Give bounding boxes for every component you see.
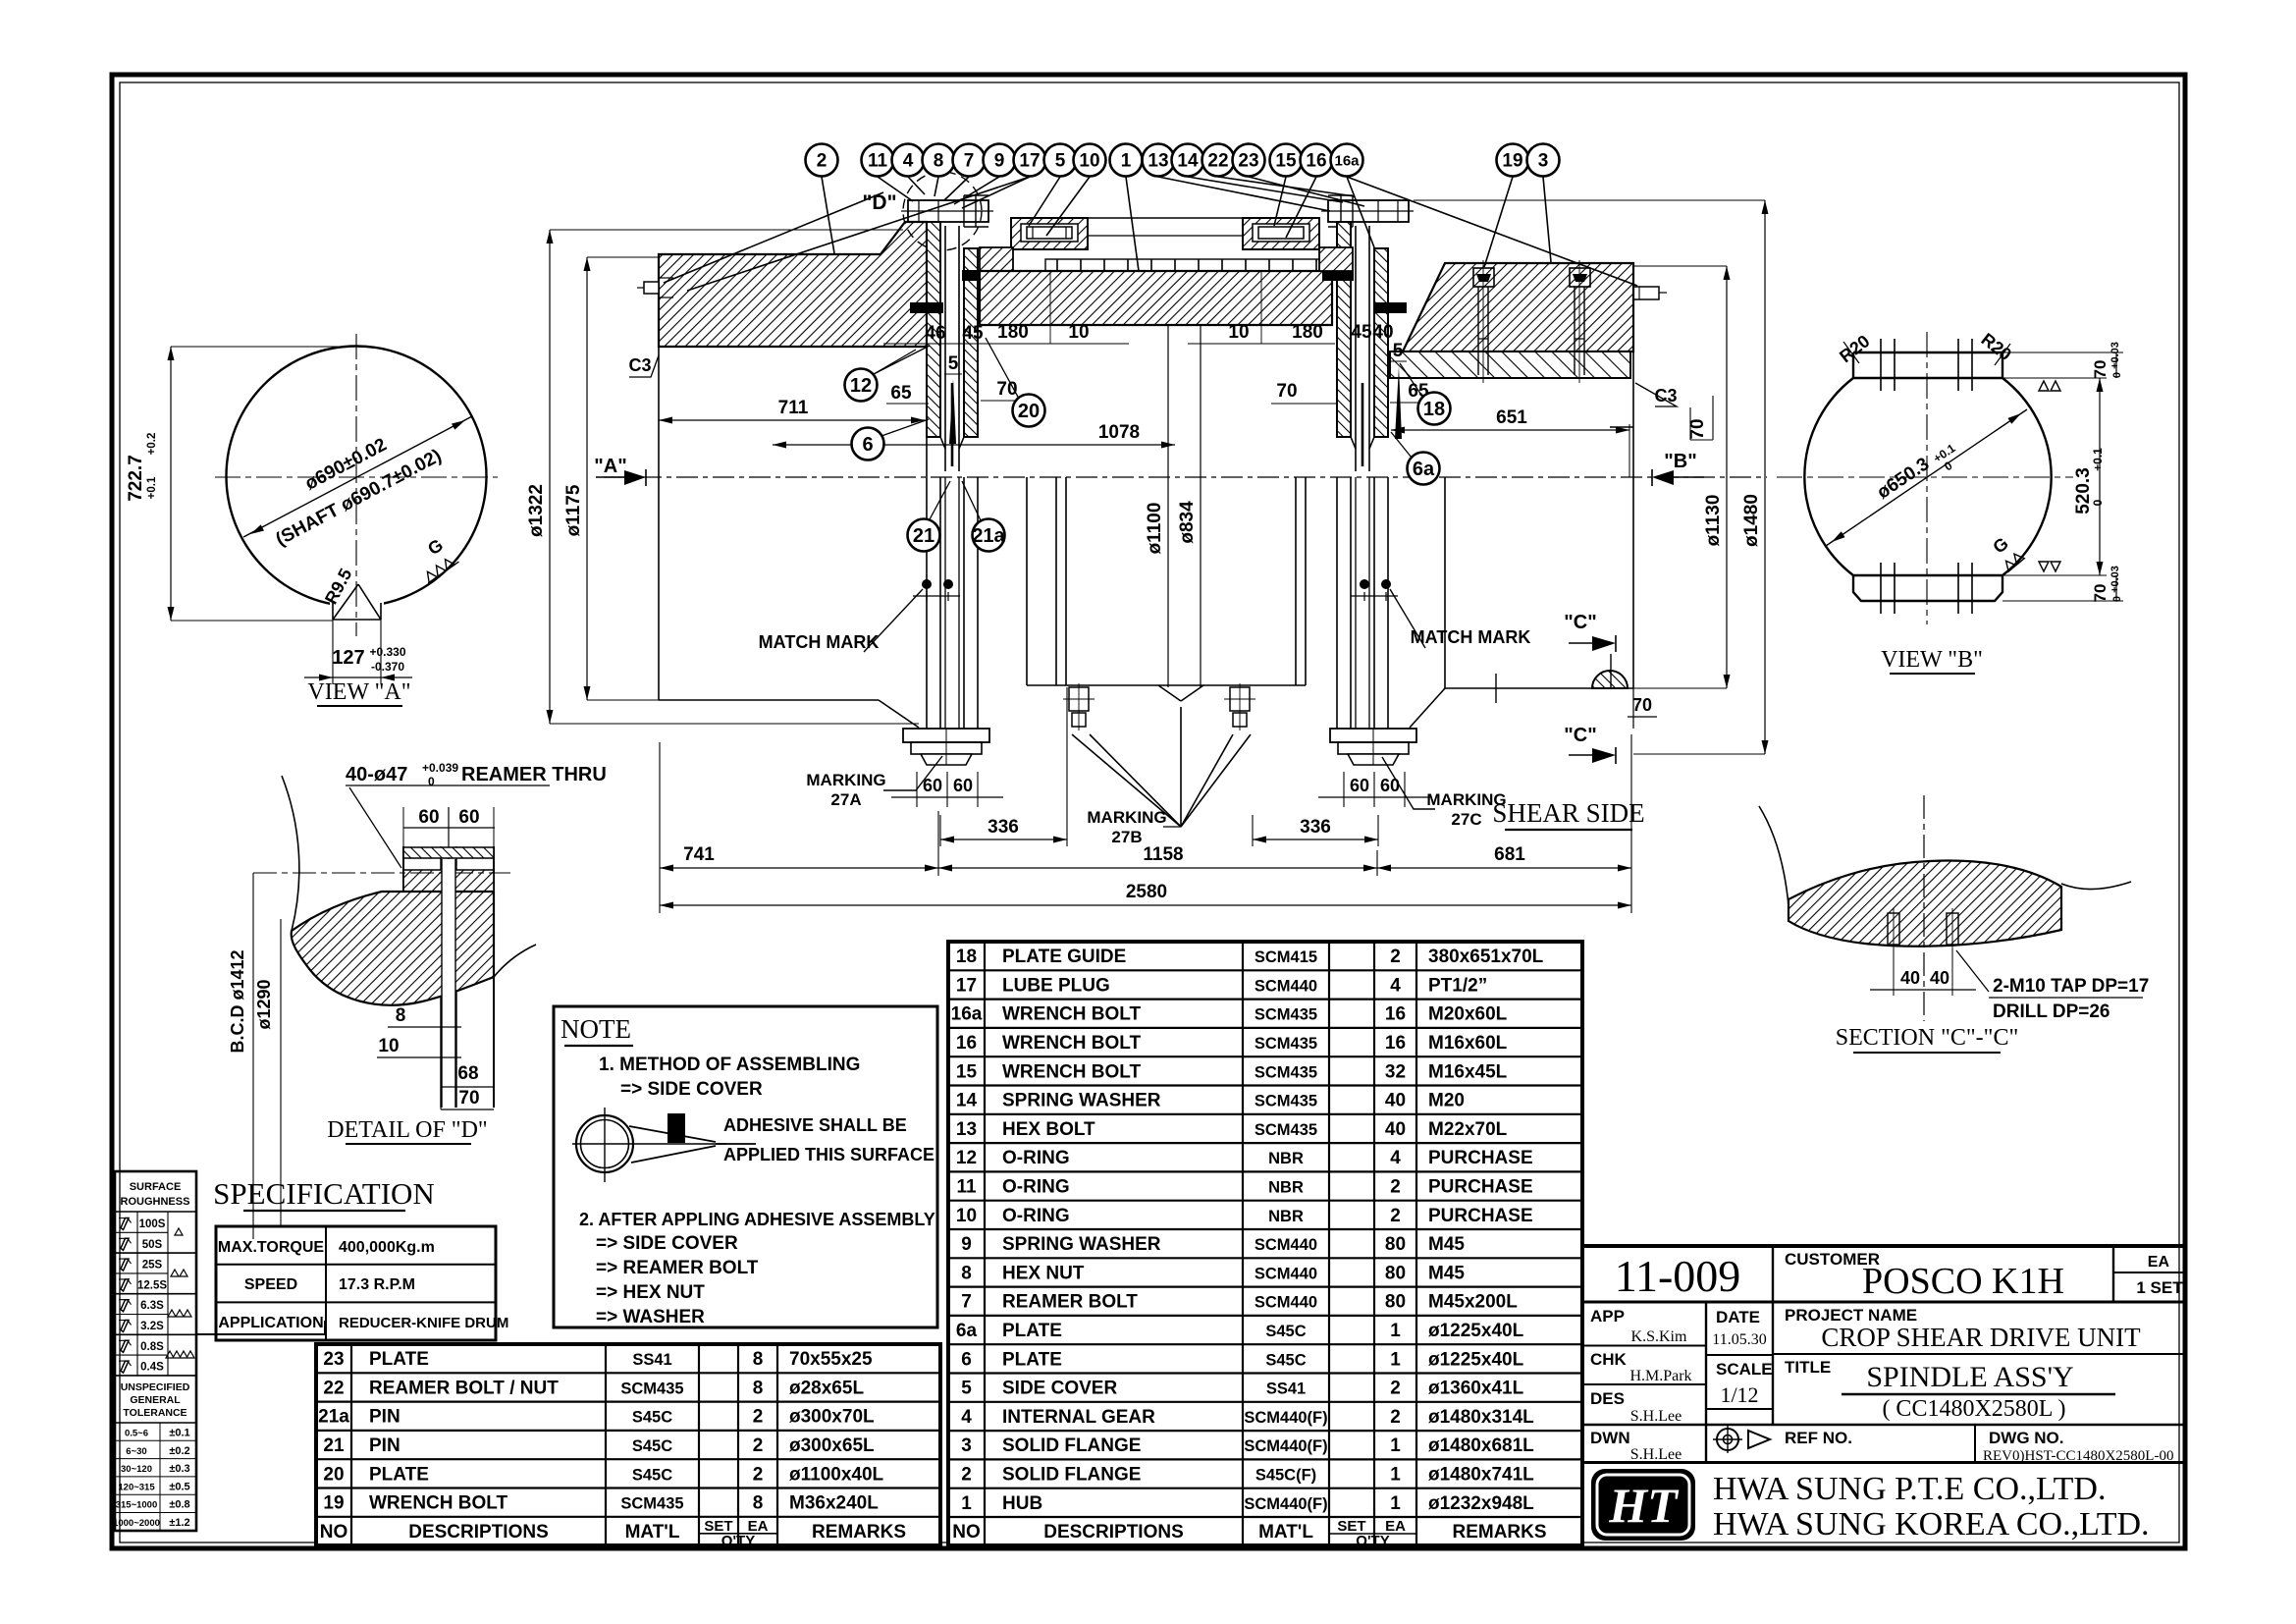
balloon 23 <box>1233 144 1265 177</box>
svg-text:TITLE: TITLE <box>1785 1358 1831 1377</box>
svg-text:11.05.30: 11.05.30 <box>1712 1331 1766 1348</box>
svg-text:NBR: NBR <box>1268 1150 1304 1167</box>
phi1322 dim <box>549 230 551 724</box>
svg-text:70: 70 <box>458 1088 479 1109</box>
svg-text:45: 45 <box>962 323 984 344</box>
svg-text:30~120: 30~120 <box>121 1464 152 1475</box>
part 2 body below <box>659 347 927 477</box>
svg-text:PLATE GUIDE: PLATE GUIDE <box>1002 947 1126 967</box>
svg-text:60: 60 <box>458 807 479 828</box>
side cover right (part 5) <box>1243 218 1319 249</box>
svg-text:S.H.Lee: S.H.Lee <box>1630 1446 1682 1463</box>
left drum outline <box>659 477 978 729</box>
svg-text:16: 16 <box>1306 151 1326 172</box>
gear teeth strip <box>1045 259 1320 271</box>
balloon 19 <box>1497 144 1529 177</box>
svg-text:7: 7 <box>961 1292 972 1313</box>
svg-text:M45: M45 <box>1428 1263 1465 1283</box>
svg-text:HT: HT <box>1608 1478 1680 1533</box>
svg-text:5: 5 <box>948 353 959 374</box>
flange plate column hatched left-a <box>927 222 940 437</box>
svg-text:6: 6 <box>961 1349 972 1370</box>
svg-text:SCM435: SCM435 <box>1255 1093 1317 1110</box>
solid flange part 3 hatched <box>1392 263 1633 374</box>
svg-text:DATE: DATE <box>1716 1308 1760 1326</box>
svg-text:60: 60 <box>1350 776 1369 795</box>
svg-text:336: 336 <box>1300 817 1331 838</box>
svg-text:REAMER BOLT: REAMER BOLT <box>1002 1292 1138 1313</box>
svg-text:2: 2 <box>817 151 828 172</box>
svg-text:MAT'L: MAT'L <box>625 1522 680 1543</box>
svg-text:PIN: PIN <box>369 1435 400 1456</box>
svg-text:ROUGHNESS: ROUGHNESS <box>121 1196 190 1208</box>
svg-text:80: 80 <box>1385 1292 1406 1313</box>
VIEW A centerlines <box>355 334 357 636</box>
dim 336 left <box>939 815 941 846</box>
svg-text:VIEW "A": VIEW "A" <box>307 679 410 705</box>
spec base line <box>196 1333 325 1335</box>
svg-text:S.H.Lee: S.H.Lee <box>1630 1408 1682 1425</box>
svg-text:17.3 R.P.M: 17.3 R.P.M <box>339 1276 415 1293</box>
svg-text:VIEW "B": VIEW "B" <box>1881 647 1983 673</box>
svg-text:NOTE: NOTE <box>561 1014 631 1044</box>
svg-text:60: 60 <box>953 776 973 795</box>
svg-text:1: 1 <box>1390 1349 1401 1370</box>
svg-text:GENERAL: GENERAL <box>130 1394 181 1406</box>
svg-text:18: 18 <box>956 947 977 967</box>
svg-text:1: 1 <box>961 1493 972 1514</box>
svg-text:DWN: DWN <box>1590 1429 1630 1447</box>
svg-text:11: 11 <box>868 151 888 172</box>
svg-text:±1.2: ±1.2 <box>169 1517 189 1529</box>
svg-text:M22x70L: M22x70L <box>1428 1119 1508 1140</box>
svg-text:-0.370: -0.370 <box>371 660 404 674</box>
svg-text:HEX BOLT: HEX BOLT <box>1002 1119 1095 1140</box>
svg-text:0: 0 <box>2111 372 2123 378</box>
svg-text:DWG NO.: DWG NO. <box>1989 1429 2064 1447</box>
svg-text:PLATE: PLATE <box>369 1349 429 1370</box>
svg-text:40: 40 <box>1372 322 1393 343</box>
svg-text:PLATE: PLATE <box>1002 1349 1062 1370</box>
svg-text:PURCHASE: PURCHASE <box>1428 1206 1533 1226</box>
balloon 1 <box>1110 144 1143 177</box>
svg-text:REV0)HST-CC1480X2580L-00: REV0)HST-CC1480X2580L-00 <box>1983 1448 2173 1464</box>
svg-text:1158: 1158 <box>1143 844 1183 865</box>
svg-text:WRENCH BOLT: WRENCH BOLT <box>369 1493 507 1514</box>
balloon 15 <box>1270 144 1303 177</box>
bottom dims 60 60 right <box>1343 772 1345 807</box>
svg-text:ø1100: ø1100 <box>1145 503 1165 555</box>
svg-text:M16x45L: M16x45L <box>1428 1061 1508 1082</box>
svg-text:32: 32 <box>1385 1061 1406 1082</box>
svg-text:0: 0 <box>2111 596 2123 602</box>
svg-text:9: 9 <box>961 1234 972 1255</box>
svg-text:16a: 16a <box>1334 152 1360 169</box>
svg-text:6: 6 <box>862 434 873 456</box>
svg-text:±0.1: ±0.1 <box>169 1428 189 1439</box>
svg-text:65: 65 <box>890 383 912 404</box>
svg-text:+0.330: +0.330 <box>369 645 405 659</box>
svg-text:PURCHASE: PURCHASE <box>1428 1176 1533 1197</box>
svg-text:315~1000: 315~1000 <box>116 1500 158 1511</box>
svg-text:NBR: NBR <box>1268 1178 1304 1196</box>
svg-text:SS41: SS41 <box>1266 1380 1306 1398</box>
svg-text:MATCH MARK: MATCH MARK <box>759 632 880 652</box>
svg-text:1: 1 <box>1390 1435 1401 1456</box>
VIEW B phi650.3 dim <box>1826 409 2027 546</box>
balloon 14 <box>1172 144 1204 177</box>
match mark dots left <box>922 579 932 589</box>
svg-text:68: 68 <box>457 1063 478 1084</box>
right parts list table <box>948 942 1582 1545</box>
detail D bolt boss hatched <box>403 870 494 892</box>
VIEW A keyway <box>333 584 381 620</box>
svg-text:20: 20 <box>323 1464 344 1485</box>
svg-text:7: 7 <box>964 151 975 172</box>
balloon 11 <box>862 144 894 177</box>
svg-text:NBR: NBR <box>1268 1208 1304 1225</box>
svg-text:NO: NO <box>320 1522 348 1543</box>
svg-text:25S: 25S <box>142 1260 163 1272</box>
dim row 741 1158 681 <box>659 742 661 913</box>
svg-text:ø1480x741L: ø1480x741L <box>1428 1464 1534 1485</box>
svg-text:±0.8: ±0.8 <box>169 1499 189 1511</box>
section C-C tap bolts <box>1888 908 1899 950</box>
side cover part 5 left <box>1011 218 1088 249</box>
svg-text:TOLERANCE: TOLERANCE <box>123 1407 187 1419</box>
svg-text:12.5S: 12.5S <box>137 1279 167 1291</box>
svg-text:REAMER BOLT / NUT: REAMER BOLT / NUT <box>369 1378 559 1398</box>
svg-text:REMARKS: REMARKS <box>1452 1522 1546 1543</box>
svg-text:21: 21 <box>913 525 934 547</box>
svg-text:10: 10 <box>378 1036 399 1056</box>
lube plug 17 left <box>637 278 673 298</box>
flange plate column hatched left-b <box>964 248 978 437</box>
svg-text:60: 60 <box>923 776 942 795</box>
balloon 5 <box>1044 144 1077 177</box>
svg-text:DES: DES <box>1590 1389 1625 1408</box>
svg-text:6a: 6a <box>1413 459 1435 480</box>
svg-text:H.M.Park: H.M.Park <box>1629 1368 1691 1384</box>
svg-text:O-RING: O-RING <box>1002 1148 1070 1168</box>
svg-text:SCM435: SCM435 <box>1255 1006 1317 1024</box>
svg-text:4: 4 <box>1390 1148 1401 1168</box>
balloon 17 <box>1014 144 1046 177</box>
drum V notch <box>1158 685 1203 701</box>
svg-text:S45C: S45C <box>632 1409 672 1427</box>
svg-text:HEX NUT: HEX NUT <box>1002 1263 1085 1283</box>
svg-text:M45x200L: M45x200L <box>1428 1292 1518 1313</box>
svg-text:SCM435: SCM435 <box>1255 1121 1317 1139</box>
svg-text:16: 16 <box>1385 1033 1406 1054</box>
balloon 2 <box>806 144 838 177</box>
svg-text:SCM440(F): SCM440(F) <box>1244 1495 1327 1513</box>
right joint bottom plate & bolt <box>1330 729 1416 765</box>
svg-text:40: 40 <box>1385 1119 1406 1140</box>
svg-text:20: 20 <box>1018 401 1040 422</box>
svg-text:40: 40 <box>1900 968 1920 988</box>
svg-text:ø1290: ø1290 <box>254 979 274 1029</box>
svg-text:1: 1 <box>1390 1464 1401 1485</box>
detail D bolt hole white <box>442 859 455 1108</box>
70 dim at C <box>1632 688 1634 729</box>
svg-text:LUBE PLUG: LUBE PLUG <box>1002 975 1110 996</box>
svg-text:SS41: SS41 <box>632 1351 671 1369</box>
hub part 1 hatched band <box>980 271 1332 325</box>
balloon 16a <box>1331 144 1363 177</box>
left parts list table <box>316 1344 940 1545</box>
svg-text:ø1360x41L: ø1360x41L <box>1428 1379 1524 1399</box>
svg-text:8: 8 <box>753 1493 764 1514</box>
svg-text:Q'TY: Q'TY <box>1356 1533 1389 1549</box>
flange plate column hatched right-b <box>1374 248 1388 437</box>
svg-text:46: 46 <box>925 323 945 344</box>
svg-text:1: 1 <box>1121 151 1132 172</box>
svg-text:WRENCH BOLT: WRENCH BOLT <box>1002 1004 1141 1025</box>
middle drum outline <box>1027 477 1306 685</box>
balloon 13 <box>1143 144 1175 177</box>
balloon 21a <box>972 519 1005 552</box>
svg-text:+0.03: +0.03 <box>2109 566 2121 593</box>
svg-text:1: 1 <box>1390 1321 1401 1341</box>
svg-text:6.3S: 6.3S <box>140 1300 164 1312</box>
svg-text:±0.2: ±0.2 <box>169 1445 189 1457</box>
svg-text:=> HEX NUT: => HEX NUT <box>596 1282 705 1303</box>
svg-text:B.C.D ø1412: B.C.D ø1412 <box>228 949 247 1053</box>
svg-text:27B: 27B <box>1111 828 1142 846</box>
cover foot left <box>980 247 1013 271</box>
extension lines right <box>1414 199 1765 201</box>
svg-text:70: 70 <box>2091 360 2109 379</box>
svg-text:2: 2 <box>1390 1407 1401 1428</box>
svg-text:15: 15 <box>1275 151 1297 172</box>
svg-text:APP: APP <box>1590 1307 1625 1326</box>
svg-text:50S: 50S <box>142 1239 163 1251</box>
detail D wave break lines <box>282 776 536 977</box>
svg-text:12: 12 <box>956 1148 977 1168</box>
svg-text:CROP SHEAR DRIVE UNIT: CROP SHEAR DRIVE UNIT <box>1821 1323 2141 1352</box>
svg-text:45: 45 <box>1351 322 1372 343</box>
svg-text:70: 70 <box>2091 584 2109 603</box>
wrench bolt 10 <box>1027 227 1072 239</box>
balloon 8 <box>923 144 955 177</box>
section C-C 40 40 dims <box>1893 948 1895 996</box>
svg-text:SCALE: SCALE <box>1716 1360 1773 1379</box>
svg-text:ø1175: ø1175 <box>563 484 584 536</box>
balloon 7 <box>953 144 986 177</box>
svg-text:SCM440(F): SCM440(F) <box>1244 1437 1327 1455</box>
svg-text:APPLICATION: APPLICATION <box>218 1315 323 1331</box>
phi1130 dim <box>1726 266 1728 688</box>
svg-text:127: 127 <box>332 647 364 669</box>
balloon 12 <box>845 369 878 402</box>
section C-C break curves <box>1759 806 2131 905</box>
balloon 21 <box>908 519 940 552</box>
svg-text:22: 22 <box>323 1378 344 1398</box>
svg-text:PIN: PIN <box>369 1407 400 1428</box>
svg-text:11: 11 <box>956 1176 977 1197</box>
dim 336 right <box>1252 815 1254 846</box>
svg-text:21: 21 <box>323 1435 345 1456</box>
VIEW A 127 dim <box>332 620 334 684</box>
svg-text:100S: 100S <box>139 1218 166 1230</box>
svg-text:2580: 2580 <box>1126 882 1167 902</box>
svg-text:+0.03: +0.03 <box>2109 342 2121 369</box>
svg-text:ADHESIVE SHALL BE: ADHESIVE SHALL BE <box>723 1115 907 1135</box>
svg-text:MARKING: MARKING <box>806 771 885 789</box>
svg-text:"A": "A" <box>594 456 626 477</box>
phi1175 dim <box>586 257 588 700</box>
bottom dims 60 60 left <box>916 772 918 807</box>
svg-text:27A: 27A <box>830 790 861 809</box>
svg-text:2. AFTER APPLING ADHESIVE ASSE: 2. AFTER APPLING ADHESIVE ASSEMBLY <box>579 1210 935 1229</box>
svg-text:MAX.TORQUE: MAX.TORQUE <box>218 1239 324 1256</box>
svg-text:WRENCH BOLT: WRENCH BOLT <box>1002 1033 1141 1054</box>
solid flange part 2 hatched section <box>659 222 927 347</box>
svg-text:4: 4 <box>1390 975 1401 996</box>
wrench bolts 19 <box>1473 260 1494 383</box>
svg-text:14: 14 <box>1177 151 1199 172</box>
svg-text:ø1225x40L: ø1225x40L <box>1428 1321 1524 1341</box>
svg-text:SURFACE: SURFACE <box>130 1181 182 1193</box>
svg-text:9: 9 <box>994 151 1005 172</box>
svg-text:22: 22 <box>1207 151 1228 172</box>
svg-text:REF NO.: REF NO. <box>1785 1429 1852 1447</box>
svg-text:PLATE: PLATE <box>369 1464 429 1485</box>
svg-text:CHK: CHK <box>1590 1350 1628 1369</box>
svg-text:1. METHOD OF ASSEMBLING: 1. METHOD OF ASSEMBLING <box>599 1055 860 1075</box>
VIEW B finish marks <box>2039 381 2060 571</box>
VIEW A 722.7 dim <box>170 347 172 621</box>
svg-text:EA: EA <box>2148 1254 2170 1271</box>
VIEW B centerlines <box>1926 332 1928 624</box>
main view centerline <box>604 476 1767 478</box>
svg-text:1 SET: 1 SET <box>2136 1278 2183 1297</box>
svg-text:SCM435: SCM435 <box>620 1380 683 1397</box>
match mark dots right <box>1360 579 1369 589</box>
svg-text:13: 13 <box>956 1119 977 1140</box>
svg-text:40: 40 <box>1385 1091 1406 1111</box>
bore lines phi1100 phi834 <box>1167 325 1169 687</box>
title block <box>1582 1246 2185 1548</box>
plate guide part 18 strip <box>1390 352 1630 378</box>
svg-text:1: 1 <box>1390 1493 1401 1514</box>
svg-text:=> REAMER BOLT: => REAMER BOLT <box>596 1258 759 1278</box>
svg-text:40: 40 <box>1930 968 1949 988</box>
svg-text:16a: 16a <box>951 1004 983 1025</box>
detail D dashed circle <box>903 172 982 250</box>
svg-text:O-RING: O-RING <box>1002 1176 1070 1197</box>
svg-text:HWA SUNG P.T.E CO.,LTD.: HWA SUNG P.T.E CO.,LTD. <box>1713 1471 2106 1507</box>
svg-text:ø1232x948L: ø1232x948L <box>1428 1493 1534 1514</box>
svg-text:MAT'L: MAT'L <box>1258 1522 1313 1543</box>
svg-text:"C": "C" <box>1564 725 1596 746</box>
svg-text:2: 2 <box>961 1464 972 1485</box>
VIEW A phi690 diagonal dim <box>243 416 472 537</box>
svg-text:4: 4 <box>903 151 914 172</box>
svg-text:120~315: 120~315 <box>118 1482 155 1492</box>
svg-text:UNSPECIFIED: UNSPECIFIED <box>121 1381 190 1393</box>
svg-text:21a: 21a <box>318 1407 349 1428</box>
section C-C half disc <box>1592 671 1628 688</box>
svg-text:ø1322: ø1322 <box>526 484 547 537</box>
svg-text:ø834: ø834 <box>1177 501 1198 544</box>
svg-text:8: 8 <box>961 1263 972 1283</box>
svg-text:SCM440(F): SCM440(F) <box>1244 1409 1327 1427</box>
svg-text:SPEED: SPEED <box>244 1276 297 1293</box>
svg-text:SCM435: SCM435 <box>620 1495 683 1513</box>
svg-text:0.5~6: 0.5~6 <box>125 1429 148 1439</box>
svg-text:4: 4 <box>961 1407 972 1428</box>
flange plate column hatched right-a <box>1337 222 1351 437</box>
specification table <box>216 1226 496 1340</box>
svg-text:S45C(F): S45C(F) <box>1255 1466 1316 1484</box>
svg-text:M20x60L: M20x60L <box>1428 1004 1508 1025</box>
svg-text:NO: NO <box>952 1522 981 1543</box>
svg-text:SPRING WASHER: SPRING WASHER <box>1002 1091 1161 1111</box>
svg-text:"C": "C" <box>1564 612 1596 633</box>
svg-text:SOLID FLANGE: SOLID FLANGE <box>1002 1464 1141 1485</box>
svg-text:70x55x25: 70x55x25 <box>789 1349 873 1370</box>
left joint bottom plate & bolt <box>903 729 989 765</box>
svg-text:ø1225x40L: ø1225x40L <box>1428 1349 1524 1370</box>
svg-text:+0.2: +0.2 <box>146 433 158 456</box>
svg-text:18: 18 <box>1423 399 1445 420</box>
wrench bolt 16a right face <box>1633 287 1667 299</box>
svg-text:5: 5 <box>961 1379 972 1399</box>
balloon 16 <box>1301 144 1333 177</box>
svg-text:POSCO K1H: POSCO K1H <box>1862 1261 2064 1302</box>
svg-text:8: 8 <box>934 151 944 172</box>
svg-text:PT1/2”: PT1/2” <box>1428 975 1487 996</box>
balloon 3 <box>1527 144 1560 177</box>
svg-text:2: 2 <box>753 1435 764 1456</box>
svg-text:SHEAR SIDE: SHEAR SIDE <box>1492 798 1644 828</box>
weld marks left joint <box>910 302 943 313</box>
detail D gear hatched mass <box>292 892 494 1005</box>
detail D BCD dashline <box>253 872 510 874</box>
detail D bolt shank <box>403 807 494 1108</box>
svg-text:DETAIL OF "D": DETAIL OF "D" <box>327 1117 487 1143</box>
svg-text:ø28x65L: ø28x65L <box>789 1378 864 1398</box>
svg-text:SCM440: SCM440 <box>1255 1236 1317 1254</box>
svg-text:711: 711 <box>778 398 809 418</box>
balloon 22 <box>1202 144 1235 177</box>
svg-text:80: 80 <box>1385 1234 1406 1255</box>
svg-text:5: 5 <box>1393 341 1404 361</box>
svg-text:11-009: 11-009 <box>1615 1251 1741 1301</box>
svg-text:REMARKS: REMARKS <box>812 1522 906 1543</box>
svg-text:Q'TY: Q'TY <box>721 1533 755 1549</box>
svg-text:2: 2 <box>753 1407 764 1428</box>
svg-text:ø1480x681L: ø1480x681L <box>1428 1435 1534 1456</box>
svg-text:180: 180 <box>997 322 1029 343</box>
svg-text:8: 8 <box>396 1005 406 1026</box>
balloon 4 <box>892 144 925 177</box>
extension lines left <box>550 229 903 231</box>
svg-text:"B": "B" <box>1664 451 1696 472</box>
svg-text:( CC1480X2580L ): ( CC1480X2580L ) <box>1882 1396 2065 1422</box>
svg-text:15: 15 <box>956 1061 978 1082</box>
svg-text:2: 2 <box>1390 1206 1401 1226</box>
VIEW B outline <box>1804 352 2051 601</box>
svg-text:SCM440: SCM440 <box>1255 1265 1317 1282</box>
svg-text:40-ø47: 40-ø47 <box>346 764 407 785</box>
svg-text:SPRING WASHER: SPRING WASHER <box>1002 1234 1161 1255</box>
svg-text:S45C: S45C <box>1265 1351 1306 1369</box>
svg-text:3: 3 <box>1538 151 1549 172</box>
svg-text:6a: 6a <box>956 1321 978 1341</box>
